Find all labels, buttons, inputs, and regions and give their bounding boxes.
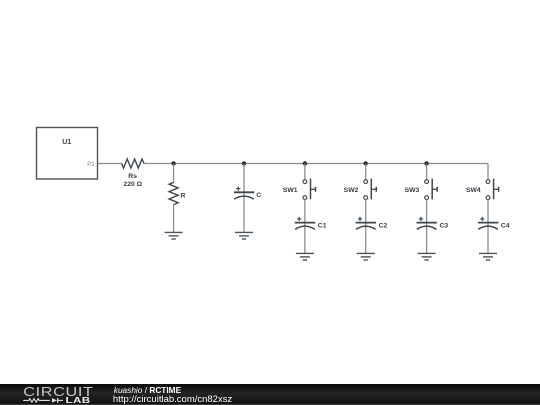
capacitor C2 (356, 217, 388, 230)
node B (242, 161, 246, 165)
wire (173, 205, 175, 233)
wire (173, 164, 175, 183)
svg-text:http://circuitlab.com/cn82xsz: http://circuitlab.com/cn82xsz (113, 394, 233, 405)
ground (235, 232, 253, 239)
ground (165, 232, 183, 239)
node E (424, 161, 428, 165)
capacitor C1 (295, 217, 327, 230)
logo diode triangle (52, 398, 57, 403)
ground (296, 253, 314, 260)
wire (304, 200, 306, 254)
wire (243, 164, 245, 233)
svg-text:SW2: SW2 (344, 187, 359, 194)
svg-text:SW1: SW1 (283, 187, 298, 194)
svg-text:U1: U1 (62, 139, 71, 146)
switch SW3 (405, 164, 438, 200)
resistor Rs (122, 159, 145, 188)
switch SW4 (466, 179, 499, 200)
ground (418, 253, 436, 260)
svg-text:C3: C3 (440, 223, 449, 230)
resistor R (169, 182, 185, 205)
wire (487, 164, 489, 180)
wire (144, 163, 488, 165)
node D (364, 161, 368, 165)
svg-text:C: C (256, 192, 261, 199)
logo resistor-diode glyph (23, 398, 63, 403)
switch SW1 (283, 164, 316, 200)
node A (171, 161, 175, 165)
node C (303, 161, 307, 165)
capacitor C3 (417, 217, 449, 230)
svg-text:C4: C4 (501, 223, 510, 230)
svg-text:SW3: SW3 (405, 187, 420, 194)
ground (479, 253, 497, 260)
footer bar (0, 384, 540, 405)
wire (426, 200, 428, 254)
wire (487, 200, 489, 254)
svg-text:Rs: Rs (128, 173, 137, 180)
IC U1 (37, 128, 98, 180)
CircuitLab logo wordmark (23, 385, 93, 405)
wire (98, 163, 122, 165)
svg-text:P1: P1 (87, 162, 95, 168)
svg-text:220 Ω: 220 Ω (123, 181, 142, 188)
svg-text:C1: C1 (318, 223, 327, 230)
wire (365, 200, 367, 254)
svg-text:LAB: LAB (66, 397, 91, 405)
capacitor C (234, 187, 261, 200)
capacitor C4 (478, 217, 510, 230)
svg-text:R: R (181, 192, 186, 199)
ground (357, 253, 375, 260)
svg-text:SW4: SW4 (466, 187, 481, 194)
switch SW2 (344, 164, 377, 200)
svg-text:C2: C2 (379, 223, 388, 230)
